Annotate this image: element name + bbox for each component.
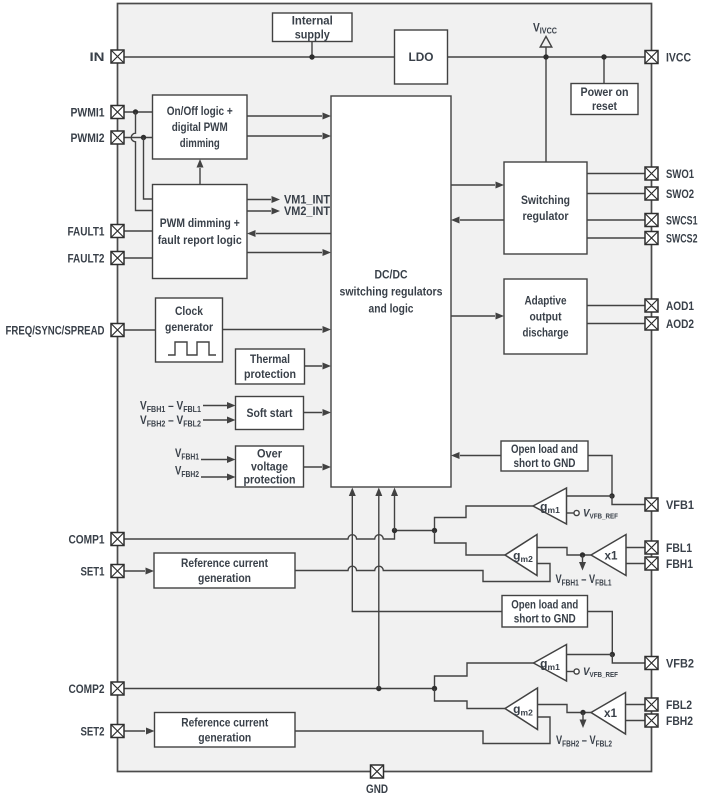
wire PWMI2 to On/Off logic <box>124 137 153 139</box>
wire VFB1 pin to gm1 upper <box>567 496 646 505</box>
junction x1 upper sense node <box>580 552 585 557</box>
svg-text:SET2: SET2 <box>81 724 105 738</box>
block adaptive output discharge <box>504 279 587 354</box>
junction x1 lower sense node <box>580 710 585 715</box>
svg-text:generator: generator <box>165 320 213 334</box>
wire open load 2 to DC/DC (long vertical) <box>352 496 502 612</box>
pin SWO1 <box>645 167 658 180</box>
block LDO <box>395 30 448 84</box>
wire switching regulator to SWO2 <box>587 193 645 195</box>
svg-text:SWO1: SWO1 <box>666 167 694 181</box>
svg-text:On/Off logic +: On/Off logic + <box>167 104 233 118</box>
svg-text:VM2_INT: VM2_INT <box>284 204 331 218</box>
pin VFB2 <box>645 657 658 670</box>
pin FBH2 <box>645 714 658 727</box>
svg-text:dimming: dimming <box>180 136 220 150</box>
wire FAULT2 to PWM dimming <box>124 257 153 259</box>
wire soft start input 1 <box>203 405 227 407</box>
wire sense arrow VFBH2-VFBL2 <box>582 713 584 720</box>
wire gm2 lower output staircase to COMP2 node <box>435 689 506 709</box>
block open load and short to GND 1 <box>501 441 588 471</box>
wire DC/DC to adaptive output discharge <box>451 315 495 317</box>
wire LDO to IVCC pin <box>448 56 646 58</box>
wire PWMI1 branch down to PWM dimming (hops PWMI2 wire) <box>131 112 152 211</box>
svg-text:Power on: Power on <box>581 85 629 99</box>
pin PWMI2 <box>111 131 124 144</box>
pin FAULT1 <box>111 225 124 238</box>
svg-text:SWO2: SWO2 <box>666 187 694 201</box>
pin FBL1 <box>645 541 658 554</box>
svg-text:voltage: voltage <box>251 460 288 474</box>
wire open load 1 to VFB1 node <box>588 456 612 497</box>
clock generator waveform glyph <box>168 342 216 355</box>
pin GND <box>371 765 384 778</box>
pin PWMI1 <box>111 106 124 119</box>
wire soft start to DC/DC <box>304 412 323 414</box>
junction COMP1 to DC/DC <box>392 528 397 533</box>
junction VFB2 node <box>610 652 615 657</box>
svg-text:Open load and: Open load and <box>511 442 578 456</box>
block reference current generation 2 <box>155 713 296 748</box>
op-amp gm2 lower (error amp channel 2) <box>505 688 538 730</box>
block soft start <box>236 397 304 430</box>
wire PWMI2 branch down to PWM dimming <box>144 138 153 200</box>
svg-text:generation: generation <box>198 730 251 744</box>
wire PWMI1 to On/Off logic <box>124 111 153 113</box>
wire switching regulator to SWO1 <box>587 173 645 175</box>
pin FREQ/SYNC/SPREAD <box>111 324 124 337</box>
svg-text:FBH1: FBH1 <box>666 557 693 571</box>
junction VFB1 node <box>609 493 614 498</box>
op-amp gm1 upper (error amp channel 1) <box>533 488 567 524</box>
svg-text:FAULT1: FAULT1 <box>68 224 105 238</box>
svg-text:PWMI1: PWMI1 <box>71 105 105 119</box>
wire open load 2 to VFB2 node <box>588 612 613 655</box>
svg-text:LDO: LDO <box>409 50 434 64</box>
block DC/DC switching regulators and logic <box>331 96 451 487</box>
svg-text:generation: generation <box>198 571 251 585</box>
wire over voltage input VFBH2 <box>201 476 227 478</box>
svg-text:Adaptive: Adaptive <box>525 294 567 308</box>
block On/Off logic + digital PWM dimming <box>153 95 248 159</box>
block over voltage protection <box>236 446 304 487</box>
block PWM dimming + fault report logic <box>153 185 248 279</box>
junction internal supply tap <box>309 54 314 59</box>
wire IN rail to LDO <box>124 56 395 58</box>
wire Vvfb_ref stub lower <box>567 671 575 673</box>
svg-text:protection: protection <box>244 473 296 487</box>
svg-text:FBH2: FBH2 <box>666 714 693 728</box>
svg-text:COMP1: COMP1 <box>69 532 105 546</box>
wire gm2 upper output staircase to COMP1 node <box>435 531 506 556</box>
svg-text:FREQ/SYNC/SPREAD: FREQ/SYNC/SPREAD <box>6 323 105 337</box>
wire over voltage input VFBH1 <box>201 459 227 461</box>
svg-text:Thermal: Thermal <box>250 352 290 366</box>
wire COMP1 node up to DC/DC <box>394 496 396 531</box>
svg-text:PWMI2: PWMI2 <box>71 131 105 145</box>
svg-text:Reference current: Reference current <box>181 715 268 729</box>
junction COMP2 staircase node <box>432 686 437 691</box>
wire Vvfb_ref stub upper <box>567 512 575 514</box>
svg-text:COMP2: COMP2 <box>69 682 105 696</box>
svg-text:AOD2: AOD2 <box>666 317 694 331</box>
wire over voltage protection to DC/DC <box>304 466 323 468</box>
pin AOD1 <box>645 299 658 312</box>
svg-text:PWM dimming +: PWM dimming + <box>160 216 240 230</box>
wire On/Off logic output 1 to DC/DC <box>247 115 322 117</box>
svg-text:Soft start: Soft start <box>247 406 293 420</box>
wire VFB2 pin to gm1 lower <box>567 655 646 664</box>
wire x1 upper to FBL1 <box>626 547 645 549</box>
block thermal protection <box>236 349 305 384</box>
buffer x1 upper (channel 1) <box>591 535 626 576</box>
svg-text:fault report logic: fault report logic <box>158 233 242 247</box>
wire VM1_INT output <box>247 199 271 201</box>
pin SET1 <box>111 565 124 578</box>
block open load and short to GND 2 <box>502 596 588 628</box>
pin SWCS2 <box>645 232 658 245</box>
svg-text:DC/DC: DC/DC <box>375 268 408 282</box>
svg-text:VFB1: VFB1 <box>666 498 694 512</box>
wire x1 lower to FBL2 <box>626 704 646 706</box>
svg-text:discharge: discharge <box>523 326 569 340</box>
wire open load 1 to DC/DC <box>460 455 501 457</box>
op-amp gm1 lower (error amp channel 2) <box>534 645 567 682</box>
wire On/Off logic output 2 to DC/DC <box>247 135 322 137</box>
pin AOD2 <box>645 317 658 330</box>
svg-text:IN: IN <box>90 50 105 64</box>
wire switching regulator to SWCS2 <box>587 237 645 239</box>
svg-text:regulator: regulator <box>523 209 569 223</box>
block internal supply <box>273 13 353 42</box>
pin IVCC <box>645 51 658 64</box>
junction PWMI2 branch <box>141 135 146 140</box>
wire gm1 upper output staircase to COMP1 node <box>435 506 534 531</box>
svg-text:switching regulators: switching regulators <box>340 285 443 299</box>
pin COMP1 <box>111 533 124 546</box>
block switching regulator <box>504 162 587 254</box>
wire power-on-reset tap <box>603 57 605 84</box>
wire VM2_INT output <box>247 210 271 212</box>
wire x1 upper to FBH1 <box>626 563 645 565</box>
wire adaptive output discharge to AOD2 <box>587 323 645 325</box>
svg-text:SET1: SET1 <box>81 564 105 578</box>
svg-text:short to GND: short to GND <box>514 611 576 625</box>
pin SWCS1 <box>645 214 658 227</box>
wire thermal protection to DC/DC <box>305 365 323 367</box>
svg-text:short to GND: short to GND <box>514 456 576 470</box>
wire FAULT1 to PWM dimming <box>124 230 153 232</box>
svg-text:reset: reset <box>592 99 617 113</box>
pin SET2 <box>111 725 124 738</box>
wire FREQ/SYNC/SPREAD to clock generator <box>124 329 156 331</box>
pin VFB1 <box>645 498 658 511</box>
svg-text:supply: supply <box>295 27 330 41</box>
wire sense arrow VFBH1-VFBL1 <box>582 555 584 562</box>
pin COMP2 <box>111 682 124 695</box>
Vivcc supply arrow symbol <box>540 37 552 48</box>
wire DC/DC to PWM dimming (fault feedback) <box>256 233 331 235</box>
wire PWM dimming to On/Off logic <box>199 168 201 185</box>
svg-text:VFB2: VFB2 <box>666 656 694 670</box>
wire DC/DC to switching regulator <box>451 184 495 186</box>
svg-text:protection: protection <box>244 367 296 381</box>
op-amp gm2 upper (error amp channel 1) <box>505 535 537 576</box>
svg-text:Open load and: Open load and <box>511 597 578 611</box>
junction PWMI1 branch <box>133 109 138 114</box>
wire SET2 to reference current 2 <box>124 730 145 732</box>
block clock generator <box>156 298 223 362</box>
block reference current generation 1 <box>154 553 295 588</box>
junction COMP1 staircase node <box>432 528 437 533</box>
wire COMP1 pin (hops over verticals) <box>124 531 435 540</box>
wire switching regulator to DC/DC <box>460 219 504 221</box>
svg-text:AOD1: AOD1 <box>666 299 694 313</box>
svg-text:GND: GND <box>366 782 388 796</box>
wire soft start input 2 <box>203 419 227 421</box>
wire PWM dimming to DC/DC <box>247 252 322 254</box>
svg-text:output: output <box>530 310 562 324</box>
IC outline (main block boundary) <box>118 4 652 772</box>
wire reference current 1 to gm2 upper (hops over verticals) <box>295 564 550 582</box>
svg-text:x1: x1 <box>604 706 617 720</box>
wire switching regulator to SWCS1 <box>587 219 645 221</box>
wire SET1 to reference current 1 <box>124 570 145 572</box>
pin FAULT2 <box>111 252 124 265</box>
junction Vivcc on rail <box>543 54 548 59</box>
svg-text:FAULT2: FAULT2 <box>68 251 105 265</box>
block power-on reset <box>571 84 638 115</box>
junction COMP2 to DC/DC <box>376 686 381 691</box>
svg-text:digital PWM: digital PWM <box>172 120 228 134</box>
svg-text:IVCC: IVCC <box>666 50 691 64</box>
svg-text:and logic: and logic <box>369 302 414 316</box>
wire x1 upper output to gm2 upper <box>537 548 591 556</box>
wire COMP2 pin to staircase node <box>124 688 435 690</box>
wire adaptive output discharge to AOD1 <box>587 305 645 307</box>
svg-text:Over: Over <box>257 447 282 461</box>
wire reference current 2 to gm2 lower <box>295 717 550 744</box>
svg-text:FBL1: FBL1 <box>666 541 692 555</box>
svg-text:Clock: Clock <box>175 304 203 318</box>
pin SWO2 <box>645 187 658 200</box>
pin FBH1 <box>645 557 658 570</box>
svg-text:FBL2: FBL2 <box>666 698 692 712</box>
wire Vivcc to switching regulator <box>545 47 547 162</box>
wire internal supply tap <box>311 42 313 58</box>
wire x1 lower to FBH2 <box>626 720 646 722</box>
wire gm1 lower output staircase to COMP2 node <box>435 663 534 689</box>
svg-text:SWCS1: SWCS1 <box>666 213 698 227</box>
pin IN <box>111 50 124 63</box>
wire x1 lower output to gm2 lower <box>538 705 592 713</box>
svg-text:x1: x1 <box>605 549 618 563</box>
buffer x1 lower (channel 2) <box>591 693 626 735</box>
wire COMP2 node up to DC/DC (long vertical) <box>378 496 380 689</box>
svg-text:Switching: Switching <box>521 193 570 207</box>
svg-text:Internal: Internal <box>292 13 333 27</box>
junction power-on-reset tap <box>601 54 606 59</box>
svg-text:Reference current: Reference current <box>181 556 268 570</box>
svg-text:SWCS2: SWCS2 <box>666 231 698 245</box>
wire clock generator to DC/DC <box>223 329 323 331</box>
pin FBL2 <box>645 698 658 711</box>
